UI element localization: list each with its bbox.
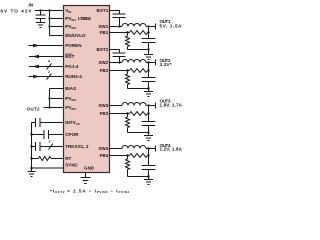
svg-text:RST: RST (65, 54, 74, 59)
svg-text:1.2V, 1.8A: 1.2V, 1.8A (160, 146, 183, 151)
svg-text:6V TO 42V: 6V TO 42V (1, 9, 33, 14)
svg-text:PVIN2: PVIN2 (65, 24, 76, 30)
svg-text:FB2: FB2 (100, 68, 109, 73)
svg-text:SW3: SW3 (98, 103, 108, 108)
svg-text:PG1-4: PG1-4 (65, 64, 79, 69)
svg-text:BIAS: BIAS (65, 86, 76, 91)
svg-text:4: 4 (48, 60, 50, 64)
svg-text:2: 2 (48, 70, 50, 74)
svg-text:RUN3-4: RUN3-4 (65, 74, 82, 79)
svg-text:SW4: SW4 (98, 146, 108, 151)
svg-text:3.3V*: 3.3V* (160, 62, 172, 67)
svg-text:PVIN1: PVIN1 (65, 16, 76, 22)
svg-text:TRKSS1, 2: TRKSS1, 2 (65, 144, 89, 149)
svg-text:SYNC: SYNC (65, 163, 78, 168)
svg-text:SW2: SW2 (98, 60, 108, 65)
svg-text:5V, 1.5A: 5V, 1.5A (160, 24, 183, 29)
svg-text:*IOUT2 = 2.5A − IPVIN3 − IPVIN: *IOUT2 = 2.5A − IPVIN3 − IPVIN4 (50, 188, 130, 194)
svg-text:INTVCC: INTVCC (65, 120, 81, 126)
svg-text:1.8V, 1.7A: 1.8V, 1.7A (160, 103, 183, 108)
svg-text:VIN: VIN (65, 8, 71, 14)
svg-text:BST2: BST2 (97, 47, 109, 52)
svg-text:FB3: FB3 (100, 111, 109, 116)
svg-text:PVIN4: PVIN4 (65, 105, 76, 111)
svg-text:RT: RT (65, 156, 71, 161)
svg-text:BST1: BST1 (97, 8, 109, 13)
svg-text:FB4: FB4 (100, 153, 109, 158)
svg-text:POREN: POREN (65, 43, 82, 48)
svg-text:IN: IN (29, 3, 34, 8)
svg-text:GND: GND (84, 165, 95, 170)
svg-text:PVIN3: PVIN3 (65, 96, 76, 102)
svg-text:2: 2 (49, 140, 51, 144)
svg-text:SW1: SW1 (98, 24, 108, 29)
svg-text:LT8602: LT8602 (78, 16, 91, 21)
svg-text:EN/UVLO: EN/UVLO (65, 33, 86, 38)
svg-text:FB1: FB1 (100, 30, 109, 35)
svg-text:CPOR: CPOR (65, 132, 79, 137)
svg-text:OUT2: OUT2 (27, 107, 40, 112)
